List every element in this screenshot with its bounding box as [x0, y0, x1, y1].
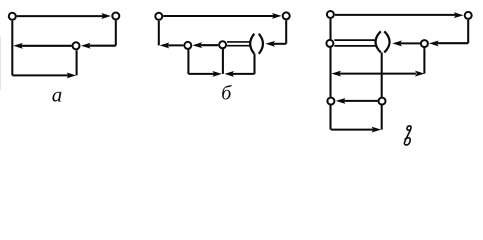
svg-text:а: а	[52, 83, 63, 107]
svg-text:б: б	[221, 83, 232, 105]
